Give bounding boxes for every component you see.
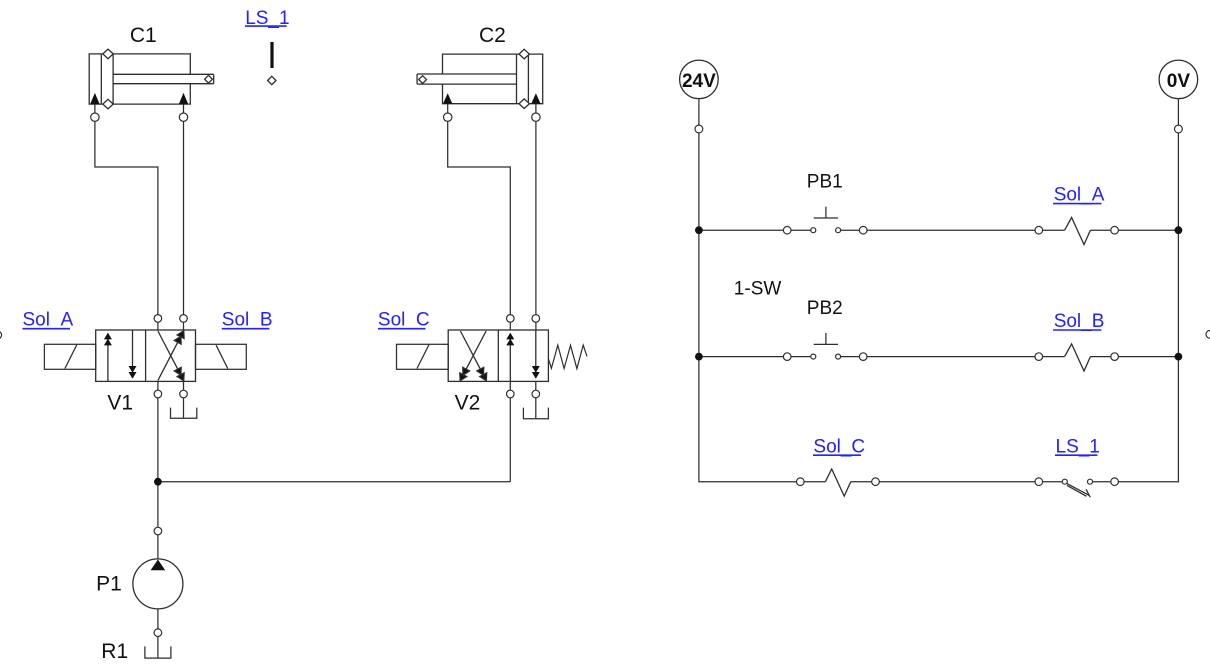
svg-text:C1: C1 [130,24,157,47]
rung 1 wire far right [1090,229,1178,231]
svg-text:V2: V2 [455,392,481,415]
svg-text:R1: R1 [101,640,128,663]
junction dot rung1 left [695,226,703,234]
svg-text:Sol_C: Sol_C [378,310,430,331]
pump P1 [133,559,183,609]
port circle V2 bottom-left [507,390,515,398]
pushbutton PB2 [783,333,867,360]
svg-text:PB2: PB2 [807,298,843,319]
port circle pump inlet [154,527,162,535]
label Sol_A electrical [1053,185,1105,206]
valve V2 [448,330,548,382]
coil Sol_A zigzag [1065,218,1091,245]
right cell crossed arrows [158,337,181,381]
rung 3 wire middle [851,481,1065,483]
junction dot manifold [154,478,162,486]
svg-text:24V: 24V [682,71,716,92]
label Sol_B hydraulic [222,310,273,331]
port circle pump outlet [154,629,162,637]
reservoir R1 [145,646,171,658]
port circle V2 top-left [507,315,515,323]
solenoid box V1 left [44,344,95,369]
coil circles Sol_C [797,478,805,486]
svg-text:Sol_C: Sol_C [813,436,865,457]
port circle V1 bottom-right [180,390,188,398]
svg-text:P1: P1 [96,572,122,595]
limit switch marker LS_1 [245,8,290,85]
wire C1 left port to V1 top-left port [95,104,158,330]
svg-text:Sol_A: Sol_A [1054,185,1105,206]
edge port circle left [0,331,2,339]
wire V2 bottom-right port to tank [535,381,537,418]
supply 0V [1159,60,1198,99]
svg-text:Sol_B: Sol_B [222,310,273,331]
edge port circle right [1206,331,1210,339]
svg-text:PB1: PB1 [807,171,843,192]
label Sol_C hydraulic [378,310,430,331]
wire V1 bottom-right port to tank [183,381,185,418]
rung 1 wire right [838,229,1065,231]
rung 1 wire left [699,229,813,231]
rung 2 wire far right [1090,356,1178,358]
junction dot rung1 right [1175,226,1183,234]
spring V2 right [548,345,587,369]
supply 24V [680,60,719,99]
wire C2 left port to V2 top-left port [448,104,511,330]
svg-text:0V: 0V [1167,71,1191,92]
left cell crossed arrows [463,331,486,375]
svg-text:1-SW: 1-SW [734,278,782,299]
coil circles Sol_B [1035,353,1043,361]
junction dot rung2 left [695,353,703,361]
svg-text:Sol_A: Sol_A [23,310,74,331]
port circle C1 left [91,113,99,121]
svg-text:V1: V1 [107,392,133,415]
svg-text:LS_1: LS_1 [1056,436,1100,457]
svg-text:Sol_B: Sol_B [1054,311,1105,332]
rung 2 wire right [838,356,1065,358]
label Sol_A hydraulic [23,310,74,331]
left cell straight arrows [107,338,109,381]
right cell straight arrows [509,338,511,381]
label Sol_C electrical [813,436,865,457]
port circle C2 left [444,113,452,121]
port circle below 0V [1175,125,1183,133]
valve V1 [96,329,196,382]
port circle V1 top-left [154,315,162,323]
wire V2 bottom-left port down [509,381,511,481]
solenoid box V2 left [397,344,449,369]
port circle C1 right [179,113,187,121]
port circle below 24V [695,125,703,133]
wire C1 right port to V1 top-right port [183,104,185,330]
port circle C2 right [532,113,540,121]
port circle V2 top-right [532,315,540,323]
port circle V2 bottom-right [532,390,540,398]
junction dot rung2 right [1175,353,1183,361]
wire left rail [699,99,826,482]
wire V1 bottom-left port down to pump P1 [157,381,159,658]
pushbutton PB1 [783,207,867,234]
cylinder C1 [89,49,214,109]
label LS_1 electrical [1055,436,1100,457]
tank symbol V1 [171,408,197,419]
rung 3 coil Sol_C zigzag [825,469,850,496]
port circle V1 bottom-left [154,390,162,398]
limit switch contact LS_1 [1035,478,1118,497]
label Sol_B electrical [1053,311,1104,332]
svg-text:C2: C2 [479,24,506,47]
wire pressure manifold horizontal [158,481,510,483]
tank symbol V2 [523,408,548,419]
wire C2 right port to V2 top-right port [535,104,537,330]
solenoid box V1 right [196,344,247,369]
coil Sol_B zigzag [1065,344,1091,371]
wire right rail [1090,99,1178,482]
cylinder C2 [417,49,543,108]
port circle V1 top-right [180,315,188,323]
coil circles Sol_A [1035,226,1043,234]
rung 2 wire left [699,356,813,358]
